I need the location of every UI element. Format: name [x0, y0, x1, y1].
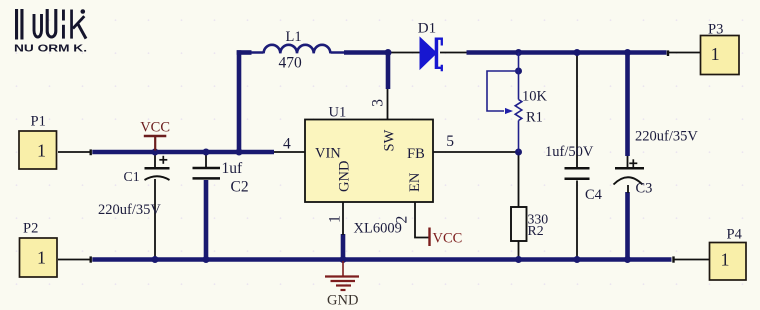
svg-text:EN: EN — [407, 172, 423, 192]
wire: EN pin 2 to VCC — [415, 202, 429, 238]
wire: SW pin 3 — [387, 89, 389, 120]
capacitor C1 — [145, 156, 170, 180]
wire: U1 GND pin thick branch — [341, 234, 346, 260]
svg-text:XL6009: XL6009 — [354, 221, 402, 237]
svg-text:C1: C1 — [124, 169, 140, 184]
wire: P2 lead — [58, 259, 90, 261]
node C1 bottom — [152, 256, 159, 263]
wire: P4 lead — [675, 259, 710, 261]
node GND bus — [340, 256, 347, 263]
svg-text:U1: U1 — [329, 105, 347, 121]
diode D1 — [418, 20, 442, 71]
node C4 bottom — [574, 256, 581, 263]
svg-text:GND: GND — [337, 161, 353, 192]
svg-text:VIN: VIN — [315, 146, 341, 162]
ground — [325, 261, 359, 290]
svg-text:1uf/50V: 1uf/50V — [545, 144, 594, 160]
svg-text:1: 1 — [711, 44, 720, 64]
svg-text:1: 1 — [37, 141, 46, 161]
wire: C1 top lead — [154, 152, 156, 168]
IC U1 XL6009 — [305, 120, 433, 203]
wire: C3 bottom branch — [625, 192, 630, 260]
svg-text:3: 3 — [370, 99, 387, 107]
wire: VIN pin 4 — [274, 151, 305, 153]
svg-text:C3: C3 — [636, 181, 653, 197]
node SW/L1/D1 — [385, 49, 392, 56]
wire: C2 bottom branch — [204, 180, 209, 260]
svg-text:NU ORM K.: NU ORM K. — [14, 43, 87, 55]
wire: input top bus (P1 to VIN) — [92, 150, 274, 155]
svg-text:L1: L1 — [286, 29, 302, 45]
svg-text:FB: FB — [407, 146, 425, 162]
wire: D1 cathode lead — [440, 52, 467, 54]
junction node dots — [152, 49, 632, 263]
inductor L1 — [251, 45, 345, 54]
svg-text:1: 1 — [721, 250, 730, 270]
wire: R2 bottom lead — [518, 241, 520, 260]
svg-text:P3: P3 — [708, 22, 723, 38]
svg-text:470: 470 — [279, 55, 303, 72]
svg-text:1: 1 — [327, 215, 344, 223]
wire: R1 to R2 node lead — [518, 152, 520, 207]
svg-text:GND: GND — [327, 293, 358, 309]
wire: vertical branch to L1 — [237, 50, 242, 152]
wire: C1 bottom lead — [154, 179, 156, 260]
wire: top bus segment left of L1 — [237, 50, 252, 55]
svg-text:1: 1 — [37, 248, 46, 268]
svg-text:10K: 10K — [522, 89, 548, 105]
potentiometer R1 — [487, 53, 522, 153]
wire: D1 anode lead — [390, 52, 420, 54]
node R1 wiper — [515, 68, 522, 75]
wire: GND pin 1 — [342, 202, 344, 235]
node R1 top — [515, 49, 522, 56]
node FB — [515, 149, 522, 156]
wire: C3 top branch — [625, 53, 630, 157]
node C2 top — [203, 149, 210, 156]
logo mark — [15, 9, 86, 40]
capacitor C4 — [565, 168, 590, 179]
wire: SW vertical branch — [386, 53, 391, 90]
node C4 top — [574, 49, 581, 56]
svg-text:1uf: 1uf — [222, 160, 244, 177]
svg-text:D1: D1 — [418, 20, 436, 36]
port P3 — [701, 36, 740, 75]
svg-text:C2: C2 — [231, 179, 249, 196]
wire: P1 lead — [58, 151, 90, 153]
node C3 top — [624, 49, 631, 56]
power port VCC (EN pin) — [428, 228, 430, 247]
port P2 — [20, 238, 58, 277]
wire: C3 plate stub — [627, 156, 629, 167]
svg-text:VCC: VCC — [140, 120, 170, 136]
node C3 bottom — [624, 256, 631, 263]
wire: output top bus (D1 to P3) — [467, 50, 667, 55]
port P1 — [19, 131, 57, 169]
wire: top bus segment L1 to SW node — [344, 50, 390, 55]
resistor R2 — [511, 207, 527, 241]
svg-text:220uf/35V: 220uf/35V — [98, 202, 161, 218]
svg-text:P2: P2 — [23, 221, 38, 237]
power port VCC (input) — [144, 136, 167, 151]
svg-text:220uf/35V: 220uf/35V — [635, 129, 698, 145]
node C2 bottom — [203, 256, 210, 263]
svg-text:5: 5 — [446, 133, 454, 150]
svg-text:SW: SW — [382, 129, 398, 151]
node R2 bottom — [515, 256, 522, 263]
svg-text:P4: P4 — [727, 227, 743, 243]
port P4 — [710, 243, 747, 281]
node VCC/C1 — [152, 149, 159, 156]
svg-text:P1: P1 — [31, 114, 46, 130]
wire: P3 lead — [669, 52, 702, 54]
svg-text:R1: R1 — [526, 110, 543, 126]
wire: C4 top lead — [576, 53, 578, 169]
svg-text:C4: C4 — [585, 187, 603, 203]
svg-text:R2: R2 — [528, 223, 544, 238]
wire: bottom ground bus — [92, 257, 671, 262]
wire: C2 top lead — [205, 152, 207, 167]
capacitor C2 — [193, 168, 221, 178]
node L1 branch tee — [236, 149, 243, 156]
wire: FB pin 5 to node — [433, 151, 519, 153]
capacitor C3 — [614, 159, 645, 184]
svg-text:VCC: VCC — [433, 231, 463, 247]
svg-text:4: 4 — [283, 136, 291, 153]
wire: C4 bottom lead — [576, 181, 578, 260]
